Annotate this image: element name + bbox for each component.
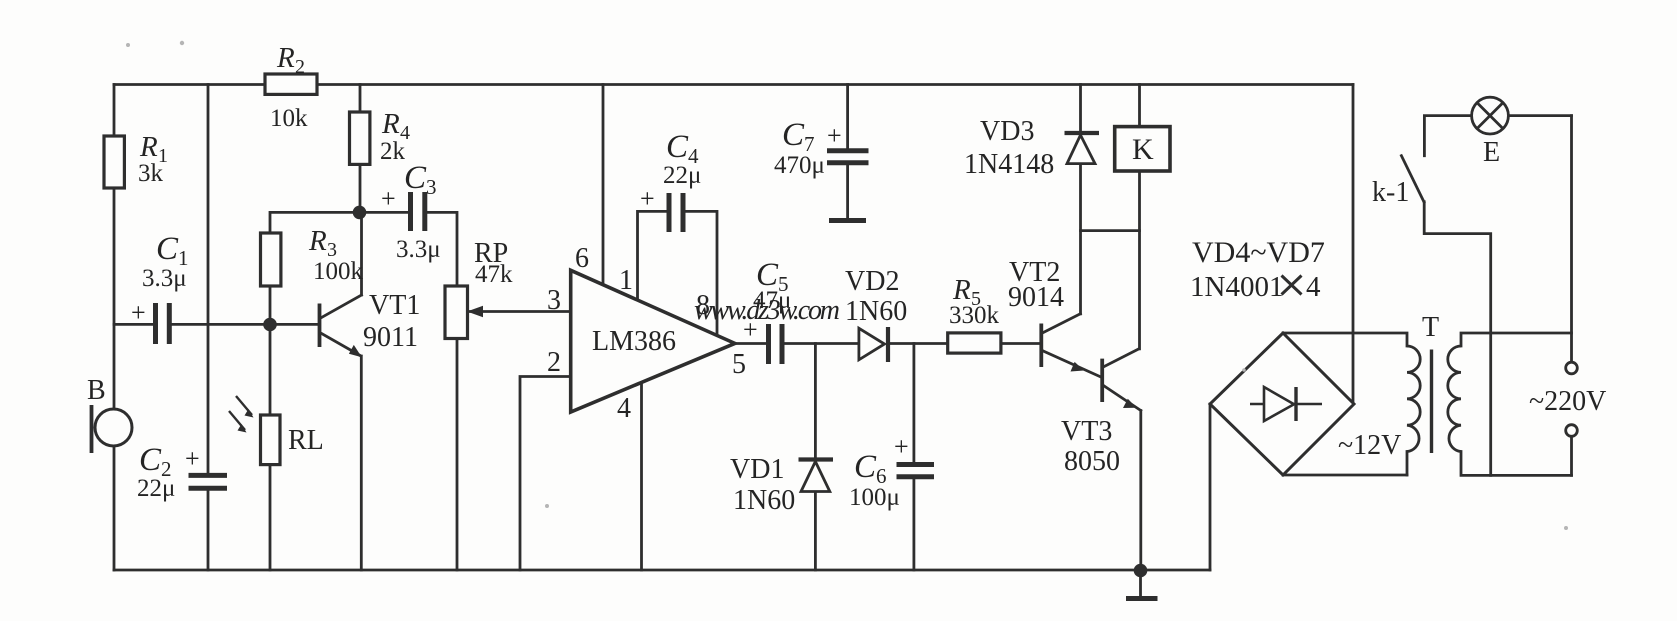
svg-text:T: T — [1422, 312, 1439, 343]
wire C2 branch vertical — [207, 85, 210, 571]
svg-text:100μ: 100μ — [849, 484, 900, 511]
svg-text:www.dz3w.com: www.dz3w.com — [694, 295, 840, 326]
photoresistor RL light arrows — [229, 396, 254, 433]
diode VD1 — [799, 460, 834, 492]
wire VT2 collector diagonal — [1043, 314, 1080, 333]
microphone B — [92, 405, 133, 453]
wire C6 branch — [913, 344, 916, 571]
svg-text:K: K — [1132, 133, 1154, 166]
svg-text:+: + — [185, 444, 200, 473]
wire C7 branch — [846, 85, 849, 219]
resistor R4 — [350, 112, 370, 164]
wire pin4 — [640, 382, 643, 570]
wire K branch / VT3 collector vertical — [1138, 85, 1141, 349]
wire bridge to transformer top — [1283, 333, 1407, 475]
wire VD3 / VT2 collector vertical — [1079, 85, 1082, 314]
terminal circles ~220V — [1566, 362, 1578, 374]
scan specks — [126, 41, 1568, 530]
wire C4 loop — [638, 211, 718, 335]
svg-text:VD1: VD1 — [730, 454, 784, 485]
wire R3-RL branch — [269, 286, 272, 570]
capacitor C1 plates — [156, 151, 1158, 599]
wire VD3-K tie — [1081, 229, 1140, 232]
svg-text:8050: 8050 — [1064, 446, 1120, 477]
svg-text:1: 1 — [619, 265, 633, 296]
svg-text:R: R — [381, 108, 400, 140]
bridge rectifier VD4~VD7 — [1210, 333, 1354, 475]
svg-text:2k: 2k — [380, 138, 406, 165]
svg-text:5: 5 — [732, 349, 746, 380]
svg-text:C: C — [404, 160, 427, 196]
wire k-1 drop — [1424, 202, 1491, 476]
svg-text:3.3μ: 3.3μ — [396, 236, 441, 263]
resistor R2 — [104, 74, 1170, 465]
ground bar main — [1126, 596, 1158, 601]
svg-text:10k: 10k — [270, 105, 308, 132]
svg-text:9011: 9011 — [363, 322, 418, 353]
relay K box — [1115, 127, 1170, 171]
transformer T core — [1430, 350, 1433, 454]
potentiometer RP body — [445, 286, 468, 339]
wire node to C3 and RP — [360, 212, 457, 286]
svg-text:+: + — [827, 121, 842, 150]
svg-text:RL: RL — [288, 425, 324, 456]
svg-text:22μ: 22μ — [137, 475, 175, 502]
node B (C1/R3/RL/VT1 base) — [263, 318, 277, 332]
capacitor C6 plates — [897, 465, 935, 477]
svg-text:470μ: 470μ — [774, 152, 825, 179]
wire pin5 output — [735, 342, 1039, 345]
wire terminal verticals — [1570, 116, 1573, 476]
photoresistor RL body — [261, 415, 281, 465]
svg-text:1N4148: 1N4148 — [964, 149, 1054, 180]
capacitor C4 plates — [669, 193, 683, 232]
transistor VT3 base bar — [1100, 359, 1104, 402]
transformer T secondary winding — [1448, 346, 1461, 452]
wire bridge to transformer bottom — [1283, 474, 1407, 477]
wire bottom rail — [114, 569, 1210, 572]
node ground junction — [1134, 564, 1148, 578]
svg-text:R: R — [276, 42, 295, 74]
svg-text:3k: 3k — [138, 160, 164, 187]
capacitor C2 plates — [189, 475, 228, 488]
wire C1 horizontal — [114, 323, 318, 326]
svg-text:1N60: 1N60 — [845, 296, 907, 327]
svg-text:R: R — [139, 131, 158, 163]
svg-text:22μ: 22μ — [663, 162, 701, 189]
svg-text:3: 3 — [426, 175, 437, 199]
svg-text:+: + — [131, 298, 146, 327]
svg-text:VT3: VT3 — [1061, 416, 1112, 447]
transistor VT3 emitter arrow — [1123, 399, 1137, 408]
wire pin6 vertical — [602, 85, 605, 285]
wire top rail — [114, 83, 1353, 86]
svg-text:LM386: LM386 — [592, 326, 676, 357]
svg-text:1N4001: 1N4001 — [1190, 271, 1283, 303]
svg-text:100k: 100k — [313, 258, 364, 285]
transistor VT1 base bar — [318, 304, 322, 348]
svg-text:k-1: k-1 — [1372, 177, 1409, 208]
transistor VT2 base bar — [1039, 324, 1043, 368]
svg-text:VD2: VD2 — [845, 266, 899, 297]
svg-text:47k: 47k — [475, 261, 513, 288]
svg-text:B: B — [87, 375, 106, 406]
plus marks — [131, 121, 909, 473]
wire left rail — [113, 85, 116, 571]
svg-text:~220V: ~220V — [1529, 386, 1606, 417]
capacitor C3 plates — [411, 192, 425, 231]
svg-text:~12V: ~12V — [1338, 430, 1401, 461]
svg-text:2: 2 — [547, 347, 561, 378]
wire bridge left corner drop — [1209, 404, 1212, 570]
svg-text:3.3μ: 3.3μ — [142, 265, 187, 292]
svg-text:C: C — [139, 442, 162, 478]
wire ground stub — [1139, 570, 1142, 596]
wire R4 branch vertical — [359, 85, 362, 213]
svg-text:+: + — [894, 432, 909, 461]
svg-text:VD3: VD3 — [980, 116, 1034, 147]
svg-text:C: C — [666, 129, 689, 165]
svg-text:1N60: 1N60 — [733, 485, 795, 516]
resistor R5 — [948, 333, 1001, 353]
wire pin3 — [470, 310, 571, 313]
wire VT2 emitter diagonal — [1043, 351, 1100, 377]
svg-text:C: C — [782, 117, 805, 153]
svg-text:6: 6 — [575, 243, 589, 274]
wire top rail right drop — [1352, 85, 1355, 405]
wire lamp left — [1424, 116, 1471, 156]
svg-text:4: 4 — [1306, 271, 1321, 303]
wire R3 top to node — [270, 212, 360, 233]
wire secondary loop — [1461, 333, 1572, 475]
pot RP wiper arrow — [467, 306, 483, 317]
svg-text:+: + — [381, 184, 396, 213]
wire VT3 emitter — [1104, 386, 1141, 570]
transformer T primary winding — [1407, 346, 1420, 452]
label 1N4001x4 cross — [1282, 276, 1302, 295]
wire lamp right — [1508, 114, 1571, 117]
svg-text:330k: 330k — [949, 302, 1000, 329]
lamp E — [1472, 97, 1509, 134]
diode VD3 — [1065, 133, 1100, 164]
svg-text:+: + — [640, 184, 655, 213]
capacitor C7 plates — [827, 151, 869, 163]
transistor VT2 emitter arrow — [1071, 362, 1085, 372]
svg-text:E: E — [1483, 137, 1500, 168]
svg-text:VT1: VT1 — [369, 290, 420, 321]
svg-text:C: C — [854, 449, 877, 485]
wire VT3 collector diagonal — [1104, 349, 1139, 367]
svg-text:C: C — [156, 231, 179, 267]
wire pin2 — [520, 377, 571, 571]
svg-text:2: 2 — [295, 56, 305, 78]
svg-text:4: 4 — [617, 393, 631, 424]
wire RP bottom to bottom rail — [456, 339, 459, 571]
wire VT1 collector — [322, 212, 362, 317]
wire VD1 branch — [814, 344, 817, 571]
capacitor C5 plates — [769, 324, 783, 364]
svg-text:3: 3 — [547, 285, 561, 316]
diode VD2 — [859, 327, 888, 362]
switch k-1 blade — [1401, 156, 1424, 202]
node A (R4/C3/R3/VT1 collector) — [353, 206, 367, 220]
svg-text:R: R — [308, 225, 327, 257]
resistor R3 — [261, 233, 281, 286]
svg-text:9014: 9014 — [1008, 282, 1064, 313]
svg-text:VD4~VD7: VD4~VD7 — [1192, 236, 1325, 269]
wire VT1 emitter — [322, 334, 362, 571]
transistor VT1 emitter arrow — [349, 345, 362, 357]
op-amp U1 LM386 triangle — [571, 270, 735, 412]
resistor R1 — [104, 136, 124, 188]
ground bar under C7 — [829, 218, 866, 223]
